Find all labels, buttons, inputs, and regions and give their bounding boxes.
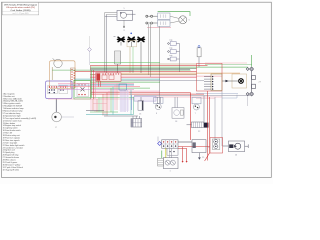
svg-text:t.sig: t.sig	[169, 47, 172, 50]
svg-text:32 Gy grey W white: 32 Gy grey W white	[3, 168, 20, 171]
svg-text:Carl Salter (2005): Carl Salter (2005)	[11, 9, 31, 12]
svg-text:US-specification model (6V): US-specification model (6V)	[6, 6, 35, 9]
svg-text:rev 1.2 - 27 june 2005: rev 1.2 - 27 june 2005	[13, 12, 29, 15]
svg-text:1976 Yamaha XT500 Wiring Diagr: 1976 Yamaha XT500 Wiring Diagram	[4, 3, 37, 6]
svg-text:t.sig: t.sig	[169, 54, 172, 57]
svg-text:g: g	[123, 30, 124, 32]
svg-text:t.sig: t.sig	[169, 39, 172, 42]
